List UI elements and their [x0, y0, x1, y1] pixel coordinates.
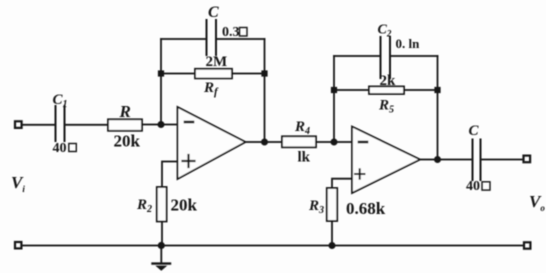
wire left vertical riser x=161 (node A up to feedback): [160, 39, 162, 125]
wire top feedback2 left segment to C2: [334, 55, 381, 57]
wire right vertical riser x=437.5 feedback2 to output: [437, 56, 439, 160]
svg-text:0.3: 0.3: [222, 25, 240, 40]
wire C1 to R: [65, 124, 109, 126]
svg-text:40: 40: [466, 179, 480, 194]
capacitor C2 0.1n: [381, 37, 391, 78]
junction square on Rf wire left: [158, 70, 164, 76]
node junction R2 / bottom rail: [158, 242, 165, 249]
wire C out to output terminal: [481, 159, 524, 161]
svg-text:C: C: [208, 4, 219, 21]
node junction U1 output / feedback riser: [261, 139, 268, 146]
input terminal: [15, 121, 22, 128]
junction square on R5 wire left: [331, 87, 337, 93]
bottom rail terminal left: [15, 242, 21, 248]
wire Rf right lead: [232, 73, 265, 75]
wire bottom rail: [21, 245, 524, 247]
svg-text:lk: lk: [298, 150, 311, 166]
svg-text:R: R: [119, 102, 131, 121]
junction square on R5 wire right: [434, 87, 440, 93]
output terminal: [524, 156, 531, 163]
capacitor C1: [56, 106, 65, 141]
wire R3 to ground rail: [331, 221, 333, 246]
resistor R3 0.68k vertical: [327, 188, 337, 221]
svg-text:0.68k: 0.68k: [346, 199, 386, 218]
U1 minus sign: [185, 121, 193, 124]
wire R2 to ground rail: [161, 222, 163, 246]
wire Rf left lead: [161, 73, 195, 75]
svg-text:2k: 2k: [380, 73, 397, 89]
node junction R3 / bottom rail: [329, 242, 336, 249]
wire input terminal to C1: [22, 124, 56, 126]
svg-text:20k: 20k: [171, 196, 198, 215]
wire R to op-amp U1 inverting input: [142, 124, 178, 126]
wire top feedback right segment from C to right riser: [216, 38, 265, 40]
resistor R 20k: [108, 119, 142, 131]
resistor R4 1k: [282, 136, 316, 147]
U1 plus sign: [183, 155, 195, 167]
op-amp U2: [352, 127, 420, 194]
wire U1 non-inverting input to R2: [162, 162, 178, 188]
ground: [153, 246, 171, 271]
svg-text:C: C: [469, 123, 480, 139]
node A junction at R / Rf / C left: [158, 121, 165, 128]
wire R4 to U2 inverting input: [316, 141, 352, 143]
wire left vertical riser x=334 stage2 feedback: [333, 56, 335, 142]
resistor R5 2k: [369, 86, 404, 94]
U2 minus sign: [359, 141, 367, 144]
wire top feedback left segment to capacitor C: [161, 38, 207, 40]
capacitor C (0.3u feedback): [207, 20, 217, 55]
svg-text:0. ln: 0. ln: [396, 36, 421, 51]
resistor Rf 2M: [195, 69, 232, 79]
wire U2 non-inverting input to R3: [332, 179, 352, 188]
node junction U2 output / feedback riser: [434, 156, 441, 163]
capacitor C output 40u: [473, 140, 481, 181]
wire right vertical riser x=264.5 feedback to output: [264, 39, 266, 142]
junction square on Rf wire right: [261, 70, 267, 76]
wire U1 output: [246, 141, 283, 143]
resistor R2 20k vertical: [157, 187, 167, 222]
svg-text:20k: 20k: [114, 132, 141, 151]
wire R5 right lead: [404, 89, 438, 91]
svg-text:2M: 2M: [206, 54, 228, 70]
bottom rail terminal right: [524, 242, 530, 248]
U2 plus sign: [355, 169, 365, 178]
wire R5 left lead: [334, 89, 369, 91]
node junction R4 / stage2 feedback riser: [331, 139, 338, 146]
wire U2 output: [420, 159, 473, 161]
wire top feedback2 right segment C2 to right riser: [390, 55, 438, 57]
svg-text:40: 40: [53, 141, 67, 156]
op-amp U1: [178, 107, 246, 179]
